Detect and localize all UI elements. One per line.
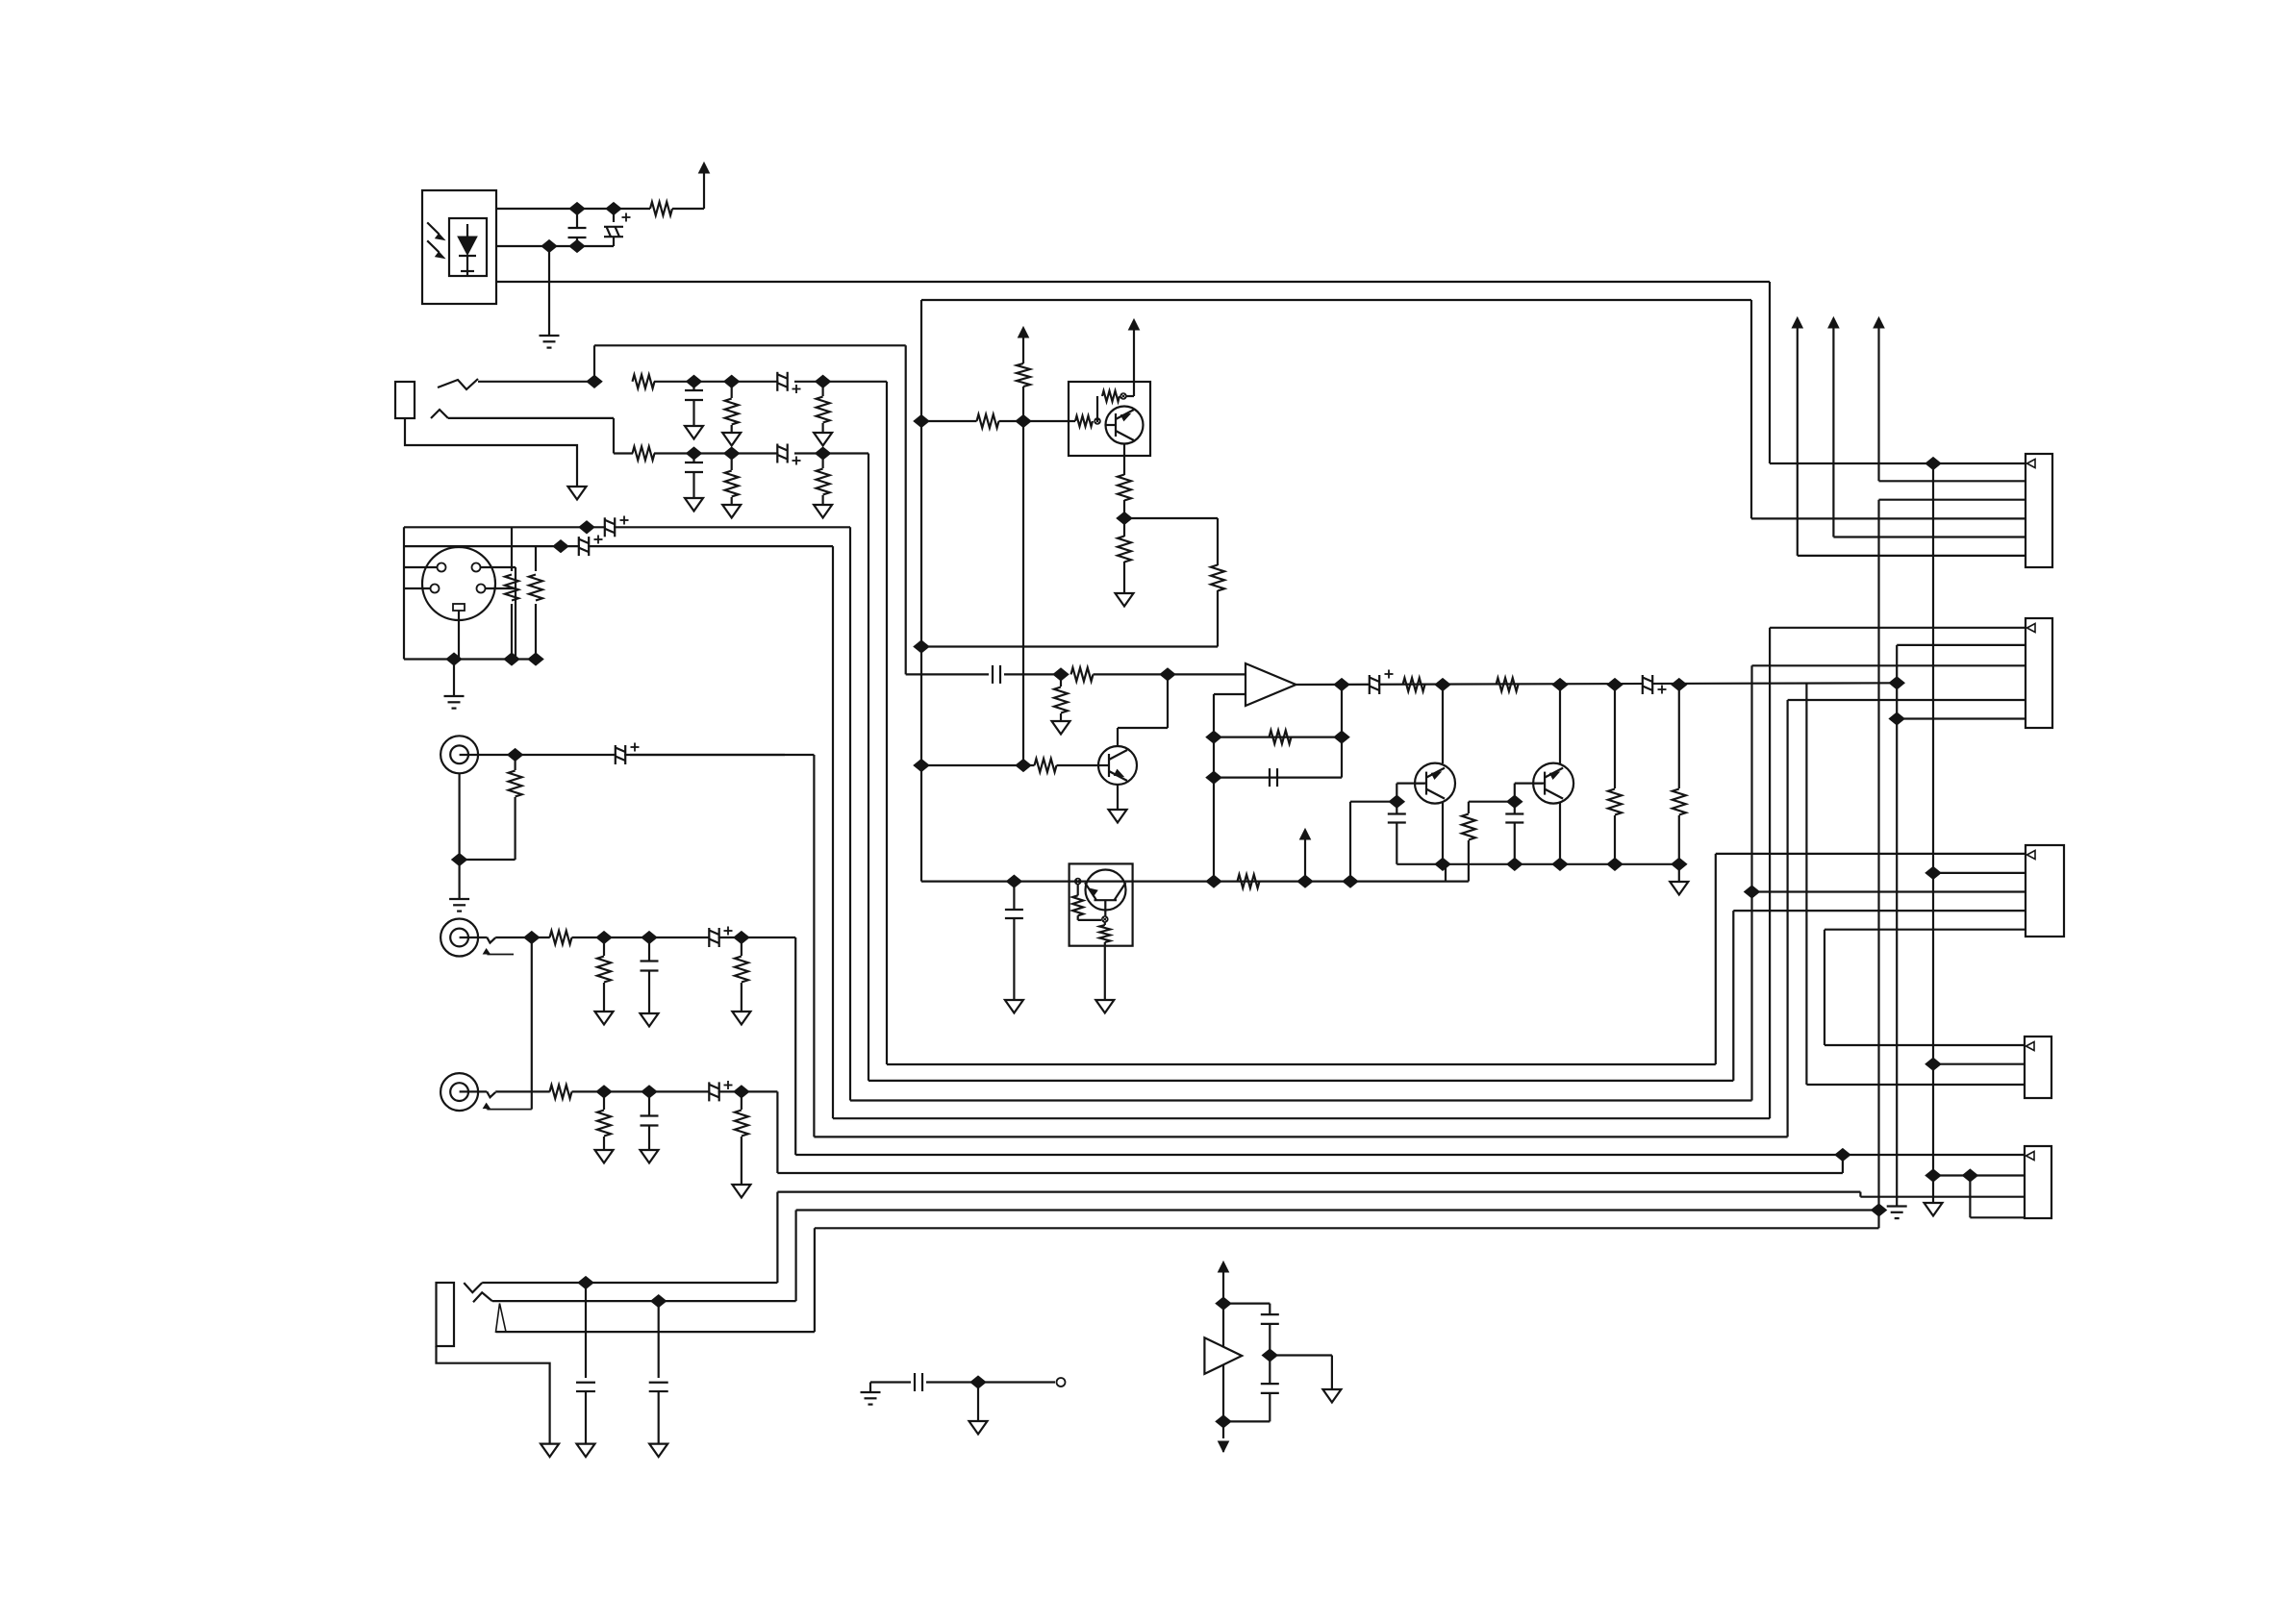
wire bbox=[672, 208, 704, 210]
ground bbox=[685, 426, 703, 439]
capacitor C1 bbox=[576, 209, 578, 228]
wire bbox=[1331, 1356, 1333, 1390]
resistor R25 bbox=[1060, 674, 1062, 687]
wire bbox=[1118, 727, 1168, 729]
wire riser 8 bbox=[1859, 1192, 1861, 1197]
buffer amp U3 bbox=[1204, 1337, 1242, 1374]
power arrow +V bbox=[699, 162, 710, 173]
phone jack J1 body bbox=[395, 382, 415, 418]
capacitor C17 bbox=[1270, 768, 1277, 787]
wire bbox=[1270, 1354, 1332, 1356]
wire bundle line 3 bbox=[850, 1099, 1752, 1101]
resistor R18 bbox=[977, 414, 999, 428]
capacitor C21 bbox=[1514, 802, 1516, 813]
junction Q6 collector bbox=[1552, 679, 1568, 691]
wire bbox=[460, 754, 516, 756]
ground bbox=[541, 1444, 559, 1458]
resistor R17 bbox=[741, 1091, 742, 1110]
jack J5 switch arrow bbox=[496, 1304, 507, 1333]
ground bbox=[732, 1185, 750, 1198]
wire to J9 pin2 bbox=[1933, 1174, 2025, 1176]
wire to connector J5 pin1 bbox=[1770, 462, 2026, 464]
capacitor C14 bbox=[585, 1283, 587, 1378]
resistor R6 bbox=[731, 454, 733, 471]
junction bbox=[508, 749, 523, 762]
resistor R9 bbox=[535, 546, 537, 571]
wire inverting input bbox=[1214, 693, 1246, 695]
jack J5rca switch lever bbox=[487, 1091, 495, 1097]
junction bbox=[1672, 858, 1687, 870]
junction bbox=[1016, 415, 1031, 428]
resistor R14 bbox=[741, 937, 742, 956]
power arrow +V rail 1 bbox=[1797, 328, 1799, 556]
tantalum capacitor C2 bbox=[613, 209, 615, 222]
wire up to bundle bbox=[776, 1192, 778, 1283]
junction bbox=[596, 932, 612, 944]
jack J1 sleeve wire bbox=[405, 418, 577, 487]
wire feedback left vertical bbox=[1213, 694, 1215, 778]
wire bbox=[977, 1383, 979, 1422]
wire tip bbox=[482, 1282, 777, 1284]
junction bbox=[504, 653, 519, 665]
wire bias net bbox=[921, 299, 1751, 301]
ground bbox=[732, 1012, 750, 1025]
transistor Q1 module box bbox=[1069, 382, 1150, 456]
junction bbox=[1334, 731, 1349, 743]
junction bbox=[1206, 731, 1221, 743]
junction Q6 emitter bbox=[1552, 858, 1568, 870]
wire Q6 base bbox=[1515, 782, 1543, 784]
junction bbox=[914, 415, 929, 428]
wire bbox=[999, 420, 1076, 422]
wire down to bundle bbox=[794, 937, 796, 1155]
junction bbox=[816, 447, 831, 460]
wire to op-amp bbox=[1094, 673, 1246, 675]
capacitor C3 bbox=[692, 382, 694, 390]
wire to J7 pin1 bbox=[1716, 853, 2026, 855]
wire bbox=[1442, 685, 1444, 763]
wire down bbox=[776, 1091, 778, 1173]
wire bbox=[1167, 674, 1169, 728]
resistor R31 bbox=[1678, 685, 1680, 788]
wire bbox=[593, 345, 595, 382]
junction bbox=[914, 760, 929, 772]
wire to J8 pin2 bbox=[1933, 1063, 2025, 1065]
wire bbox=[1559, 685, 1561, 763]
resistor R5 bbox=[633, 447, 655, 461]
wire riser 1 bbox=[1715, 854, 1717, 1064]
junction Q5 emitter bbox=[1435, 858, 1450, 870]
wire key stub bbox=[458, 611, 460, 660]
photodiode D1 bbox=[466, 224, 468, 237]
ground bbox=[814, 433, 832, 446]
wire common vertical bbox=[1896, 645, 1898, 1207]
junction bbox=[569, 203, 585, 215]
capacitor C20 bbox=[1396, 802, 1397, 813]
resistor R29 bbox=[1403, 678, 1425, 691]
transistor Q5 bbox=[1415, 763, 1455, 804]
wire to J6 pin1 bbox=[1770, 627, 2026, 629]
wire bbox=[654, 452, 785, 454]
light arrow 1 bbox=[427, 222, 439, 234]
resistor R10 bbox=[514, 755, 516, 770]
resistor R32 bbox=[1468, 802, 1470, 813]
wire opto pin1 to resistor bbox=[496, 208, 650, 210]
wire riser 7 bbox=[1842, 1155, 1844, 1173]
ground bbox=[1109, 810, 1127, 823]
wire bbox=[495, 937, 550, 938]
junction bbox=[1343, 875, 1358, 887]
wire riser 5 bbox=[1786, 700, 1788, 1137]
wire Q2 base row bbox=[921, 764, 1035, 766]
wire bbox=[794, 381, 887, 383]
wire bundle line 8 bbox=[777, 1190, 1860, 1192]
wire to J5 pin3 bbox=[1879, 499, 2026, 501]
wire bbox=[1396, 784, 1397, 802]
wire bundle line 7 bbox=[777, 1172, 1843, 1174]
wire bundle line 10 bbox=[815, 1227, 1879, 1229]
wire common vertical 2 bbox=[1932, 463, 1934, 1203]
wire bbox=[978, 1381, 1055, 1383]
junction bbox=[569, 240, 585, 253]
wire switch contact bbox=[496, 1331, 815, 1333]
wire DIN2 down to bundle bbox=[832, 546, 834, 1118]
junction bbox=[1925, 1058, 1941, 1070]
wire bbox=[460, 937, 488, 938]
junction bbox=[687, 375, 702, 387]
resistor R23 bbox=[1123, 518, 1125, 537]
jack J1 tip contact bbox=[438, 379, 478, 389]
wire riser 4 bbox=[1769, 628, 1771, 1118]
resistor R2 bbox=[633, 375, 655, 388]
wire bbox=[516, 754, 785, 756]
resistor R3 bbox=[731, 382, 733, 398]
wire bbox=[1750, 300, 1752, 518]
wire to J5 pin2 bbox=[1879, 480, 2026, 482]
capacitor C25 bbox=[1269, 1356, 1271, 1385]
DIN pin 2 bbox=[472, 563, 481, 572]
wire DIN left side bbox=[403, 527, 405, 659]
capacitor C24 bbox=[1223, 1302, 1270, 1304]
wire Q2 emitter bbox=[1117, 785, 1119, 810]
capacitor C12 bbox=[648, 1091, 650, 1115]
wire pin2 stub bbox=[481, 566, 516, 568]
wire to +V bbox=[703, 173, 705, 209]
junction bbox=[524, 932, 540, 944]
connector J6 bbox=[2026, 618, 2052, 728]
tantalum capacitor C6 bbox=[777, 443, 787, 463]
emitter bus bbox=[1397, 863, 1679, 865]
ground bbox=[722, 505, 741, 518]
jack J5rca switch arrow bbox=[483, 1103, 491, 1110]
ground bbox=[1670, 882, 1688, 895]
wire bbox=[1124, 517, 1218, 519]
junction bbox=[1006, 875, 1021, 887]
DIN key bbox=[453, 604, 465, 611]
junction bbox=[541, 240, 557, 253]
wire pin1 stub bbox=[404, 566, 437, 568]
wire bbox=[1057, 764, 1099, 766]
wire to J7 pin5 bbox=[1824, 929, 2026, 931]
junction bbox=[1216, 1415, 1231, 1428]
wire emitter up bbox=[1133, 382, 1135, 396]
junction bbox=[1206, 875, 1221, 887]
junction bbox=[1016, 760, 1031, 772]
junction bbox=[1389, 795, 1404, 808]
junction bbox=[734, 932, 749, 944]
earth ground bbox=[861, 1392, 881, 1405]
wire DIN row2 bbox=[404, 545, 833, 547]
junction bbox=[734, 1086, 749, 1098]
Q3 internal resistor R34 bbox=[1104, 922, 1106, 925]
resistor R29b bbox=[1497, 678, 1519, 691]
wire riser 2 bbox=[1732, 911, 1734, 1081]
junction bbox=[1925, 866, 1941, 879]
wire normalling link bbox=[531, 937, 533, 1110]
resistor R4 bbox=[821, 382, 823, 396]
wire jog bbox=[1824, 930, 1825, 1045]
junction bbox=[687, 447, 702, 460]
wire bundle line 6 to J9 pin1 bbox=[795, 1154, 2025, 1156]
jack J5 ring contact bbox=[473, 1292, 492, 1302]
wire to J6 pin5 bbox=[1788, 699, 2026, 701]
wire bbox=[814, 1228, 816, 1332]
transistor Q1 bbox=[1106, 407, 1144, 444]
earth ground bbox=[1887, 1207, 1907, 1219]
tantalum capacitor C13 bbox=[709, 1082, 718, 1102]
wire to J5 pin4 bbox=[1751, 517, 2026, 519]
wire bbox=[1442, 803, 1444, 864]
wire bbox=[1514, 784, 1516, 802]
junction bbox=[914, 640, 929, 653]
power arrow bbox=[1874, 317, 1884, 328]
wire RCA sleeve bbox=[459, 773, 461, 860]
wire tip bbox=[478, 381, 594, 383]
wire bbox=[1217, 518, 1219, 565]
Q1 internal resistor R21 bbox=[1096, 396, 1098, 421]
resistor R19 bbox=[1022, 387, 1024, 421]
junction bbox=[1889, 712, 1904, 725]
wire bbox=[1446, 880, 1469, 882]
wire bbox=[654, 381, 785, 383]
resistor R16 bbox=[603, 1091, 605, 1110]
earth ground bbox=[449, 899, 469, 912]
wire bbox=[1213, 778, 1215, 882]
capacitor C16 bbox=[906, 673, 989, 675]
wire bbox=[1222, 1441, 1224, 1452]
wire pin4 stub bbox=[486, 587, 516, 589]
wire bundle line 5 bbox=[814, 1136, 1787, 1137]
resistor R7 bbox=[821, 454, 823, 469]
connector J9 bbox=[2025, 1146, 2051, 1218]
capacitor C10 bbox=[648, 937, 650, 962]
wire Q5 base bbox=[1397, 782, 1424, 784]
wire riser from bias row bbox=[1445, 864, 1447, 882]
RCA jack J4 bbox=[440, 919, 478, 957]
junction bbox=[528, 653, 543, 665]
power arrow +V bbox=[1129, 319, 1140, 330]
wire bbox=[460, 859, 516, 861]
junction bbox=[1925, 1169, 1941, 1182]
junction bbox=[1053, 668, 1069, 681]
wire DIN right side bbox=[515, 567, 516, 660]
optical sensor module U1 outer box bbox=[422, 190, 496, 304]
wire Q2 collector bbox=[1117, 728, 1119, 746]
RCA jack J3 bbox=[440, 736, 478, 773]
ground bbox=[969, 1421, 988, 1435]
wire bbox=[1969, 1176, 1971, 1218]
resistor R1 bbox=[650, 202, 672, 215]
power arrow bbox=[1828, 317, 1839, 328]
wire to J7 pin2 bbox=[1933, 872, 2026, 874]
junction bbox=[1925, 458, 1941, 470]
wire riser 10 bbox=[1877, 500, 1879, 1229]
junction bbox=[1745, 886, 1760, 898]
resistor R28 bbox=[1270, 731, 1292, 744]
connector J7 bbox=[2026, 845, 2064, 937]
wire emitter down bbox=[1104, 942, 1106, 1000]
wire bundle line 9 bbox=[796, 1209, 1879, 1211]
junction bbox=[816, 375, 831, 387]
wire down to amp input bbox=[905, 345, 907, 674]
junction bbox=[606, 203, 621, 215]
junction bbox=[452, 854, 467, 866]
wire feedback to base chain bbox=[921, 645, 1218, 647]
wire bbox=[614, 452, 633, 454]
wire to J9 pin3 bbox=[1860, 1196, 2025, 1198]
wire bundle line 2 bbox=[868, 1080, 1733, 1082]
wire bbox=[794, 452, 868, 454]
wire to J7 pin3 bbox=[1752, 890, 2026, 892]
wire ring bbox=[448, 417, 614, 419]
wire feedback right vertical bbox=[1341, 685, 1343, 778]
wire bbox=[572, 1090, 778, 1092]
earth ground bbox=[444, 696, 465, 709]
tantalum capacitor C18 bbox=[1370, 675, 1379, 695]
jack J5 tip contact bbox=[464, 1283, 482, 1292]
junction bbox=[579, 521, 594, 534]
junction bbox=[1607, 858, 1623, 870]
resistor R13 bbox=[603, 937, 605, 956]
wire bbox=[1559, 803, 1561, 864]
DIN pin 4 bbox=[477, 585, 486, 593]
junction bbox=[446, 653, 462, 665]
RCA jack J5rca bbox=[440, 1073, 478, 1111]
wire RCA1 down to bundle bbox=[813, 755, 815, 1137]
jack J1 ring contact bbox=[431, 410, 448, 418]
junction bbox=[1262, 1349, 1277, 1362]
resistor R35 bbox=[1238, 875, 1260, 888]
wire bbox=[1217, 590, 1219, 647]
wire bbox=[1678, 864, 1680, 882]
wire feedback row bbox=[1214, 736, 1342, 737]
wire pin3 stub bbox=[404, 587, 430, 589]
wire to ground bbox=[453, 660, 455, 697]
wire bbox=[572, 937, 796, 938]
wire to J6 pin3 bbox=[1752, 664, 2026, 666]
wire to J5 pin6 bbox=[1798, 555, 2026, 557]
wire to J7 pin4 bbox=[1733, 910, 2026, 912]
junction bbox=[1507, 795, 1522, 808]
jack J4 switch lever bbox=[487, 937, 495, 943]
wire collector down bbox=[1123, 444, 1125, 476]
tantalum capacitor C8 bbox=[579, 537, 589, 557]
junction bbox=[651, 1295, 667, 1308]
resistor R26 bbox=[1071, 667, 1094, 681]
wire bbox=[1769, 282, 1771, 463]
junction bbox=[1117, 512, 1132, 525]
power arrow +V bbox=[1300, 829, 1311, 839]
resistor R15 bbox=[550, 1085, 572, 1098]
resistor R8 bbox=[511, 527, 513, 571]
ground bbox=[1095, 1000, 1114, 1013]
wire bbox=[1223, 1420, 1270, 1422]
capacitor C5 bbox=[692, 454, 694, 463]
connector J5 bbox=[2026, 454, 2052, 567]
wire feedback cap row bbox=[1214, 776, 1342, 778]
tantalum capacitor C11 bbox=[709, 928, 718, 948]
connector J8 bbox=[2025, 1037, 2051, 1098]
wire to ground bbox=[548, 246, 550, 336]
ground bbox=[577, 1444, 595, 1458]
tantalum capacitor C7 bbox=[605, 517, 615, 537]
transistor Q3 module box bbox=[1070, 863, 1133, 945]
wire to J8 pin3 bbox=[1806, 1084, 2025, 1086]
wire ch2 down to bundle bbox=[868, 454, 869, 1081]
ground bbox=[641, 1013, 659, 1027]
op-amp U2 bbox=[1246, 663, 1296, 706]
wire bbox=[1133, 330, 1135, 382]
wire rail vertical bbox=[1222, 1272, 1224, 1438]
capacitor C15 bbox=[658, 1301, 660, 1378]
wire bbox=[613, 418, 615, 454]
wire vertical bias chain bbox=[920, 300, 922, 882]
junction bbox=[642, 1086, 657, 1098]
DIN pin 1 bbox=[438, 563, 446, 572]
power arrow bbox=[1219, 1262, 1229, 1272]
wire bbox=[926, 1381, 978, 1383]
wire DIN ground row bbox=[404, 658, 541, 660]
junction bbox=[596, 1086, 612, 1098]
junction bbox=[642, 932, 657, 944]
power arrow +V bbox=[1019, 327, 1029, 337]
wire bbox=[1350, 801, 1397, 803]
wire opto pin2 bbox=[496, 245, 614, 247]
wire DIN row1 bbox=[404, 526, 850, 528]
ground bbox=[1116, 593, 1134, 607]
optical sensor inner box bbox=[449, 218, 487, 276]
junction bbox=[724, 447, 740, 460]
junction bbox=[1334, 679, 1349, 691]
resistor R20 bbox=[1075, 416, 1093, 427]
junction bbox=[1206, 771, 1221, 784]
jack J5 sleeve wire bbox=[437, 1346, 550, 1444]
junction bbox=[1889, 677, 1904, 689]
tantalum capacitor C19 bbox=[1643, 675, 1652, 695]
junction bbox=[1835, 1149, 1850, 1162]
wire bbox=[495, 1090, 550, 1092]
capacitor C23 bbox=[869, 1383, 871, 1393]
power arrow bbox=[1792, 317, 1802, 328]
wire output row bbox=[1296, 683, 1898, 685]
ground bbox=[722, 433, 741, 446]
resistor R22 bbox=[1118, 475, 1131, 501]
wire riser 3 bbox=[1750, 665, 1752, 1100]
wire ch1 down to bundle bbox=[886, 382, 888, 1064]
ground bbox=[1052, 721, 1070, 735]
wire ring bbox=[492, 1300, 796, 1302]
junction bbox=[970, 1376, 986, 1388]
